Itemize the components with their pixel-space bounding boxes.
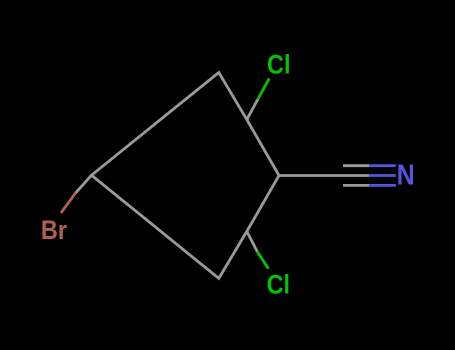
middle line blue half [369, 174, 396, 177]
nitrile C1-C single bond + middle line of triple (gray part) [279, 174, 369, 177]
bond C2-Cl top: green half [258, 78, 269, 99]
triple bond upper line gray half [343, 164, 369, 167]
svg-text:Br: Br [41, 216, 67, 246]
svg-text:Cl: Cl [267, 50, 290, 80]
bond C6-Cl bottom: green half [257, 252, 268, 269]
triple bond lower line gray half [343, 184, 369, 187]
svg-text:N: N [397, 159, 415, 191]
bond C4-Br: red half [61, 193, 76, 213]
benzene ring (distorted hexagon) [92, 73, 280, 279]
bond C6-Cl bottom: gray half [247, 231, 257, 251]
bond C2-Cl top: gray half [247, 99, 258, 120]
bond C4-Br: gray half [75, 175, 91, 193]
triple bond upper line blue half [369, 164, 396, 167]
triple bond lower line blue half [369, 184, 396, 187]
svg-text:Cl: Cl [267, 270, 290, 300]
